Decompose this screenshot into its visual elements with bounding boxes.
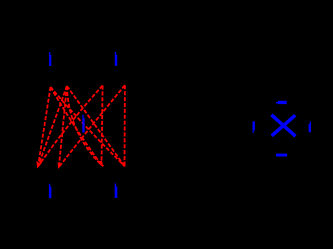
spin marker east (vertical)	[309, 121, 311, 132]
spin marker west (vertical)	[253, 121, 255, 132]
node spin marker bottom-left	[49, 184, 52, 198]
wire P2-Q1	[38, 86, 67, 167]
node spin marker bottom-right	[115, 184, 118, 198]
wire P2-Q3	[67, 86, 102, 165]
wire P2-Q4	[67, 86, 124, 166]
node Q4 valley tip	[122, 162, 126, 166]
vortex core marker X	[271, 115, 295, 136]
spin marker north (horizontal)	[276, 101, 287, 104]
wire P4-Q2	[59, 85, 125, 167]
wire P3-Q1	[38, 86, 103, 167]
node spin marker top-left	[49, 52, 51, 66]
wire P4-Q4	[124, 85, 126, 166]
wire P1-Q3	[51, 87, 102, 165]
wire P2-Q2	[59, 86, 67, 167]
spin marker south (horizontal)	[276, 154, 287, 157]
node Q3 valley tip	[101, 161, 104, 166]
node spin marker center	[82, 115, 84, 133]
node Q2 valley tip	[59, 163, 62, 167]
node spin marker top-right	[115, 52, 117, 66]
node Q1 valley tip	[37, 162, 41, 167]
wire P3-Q3	[102, 86, 103, 166]
wire P1-Q4	[51, 87, 125, 166]
wire P1-Q1	[38, 87, 51, 167]
